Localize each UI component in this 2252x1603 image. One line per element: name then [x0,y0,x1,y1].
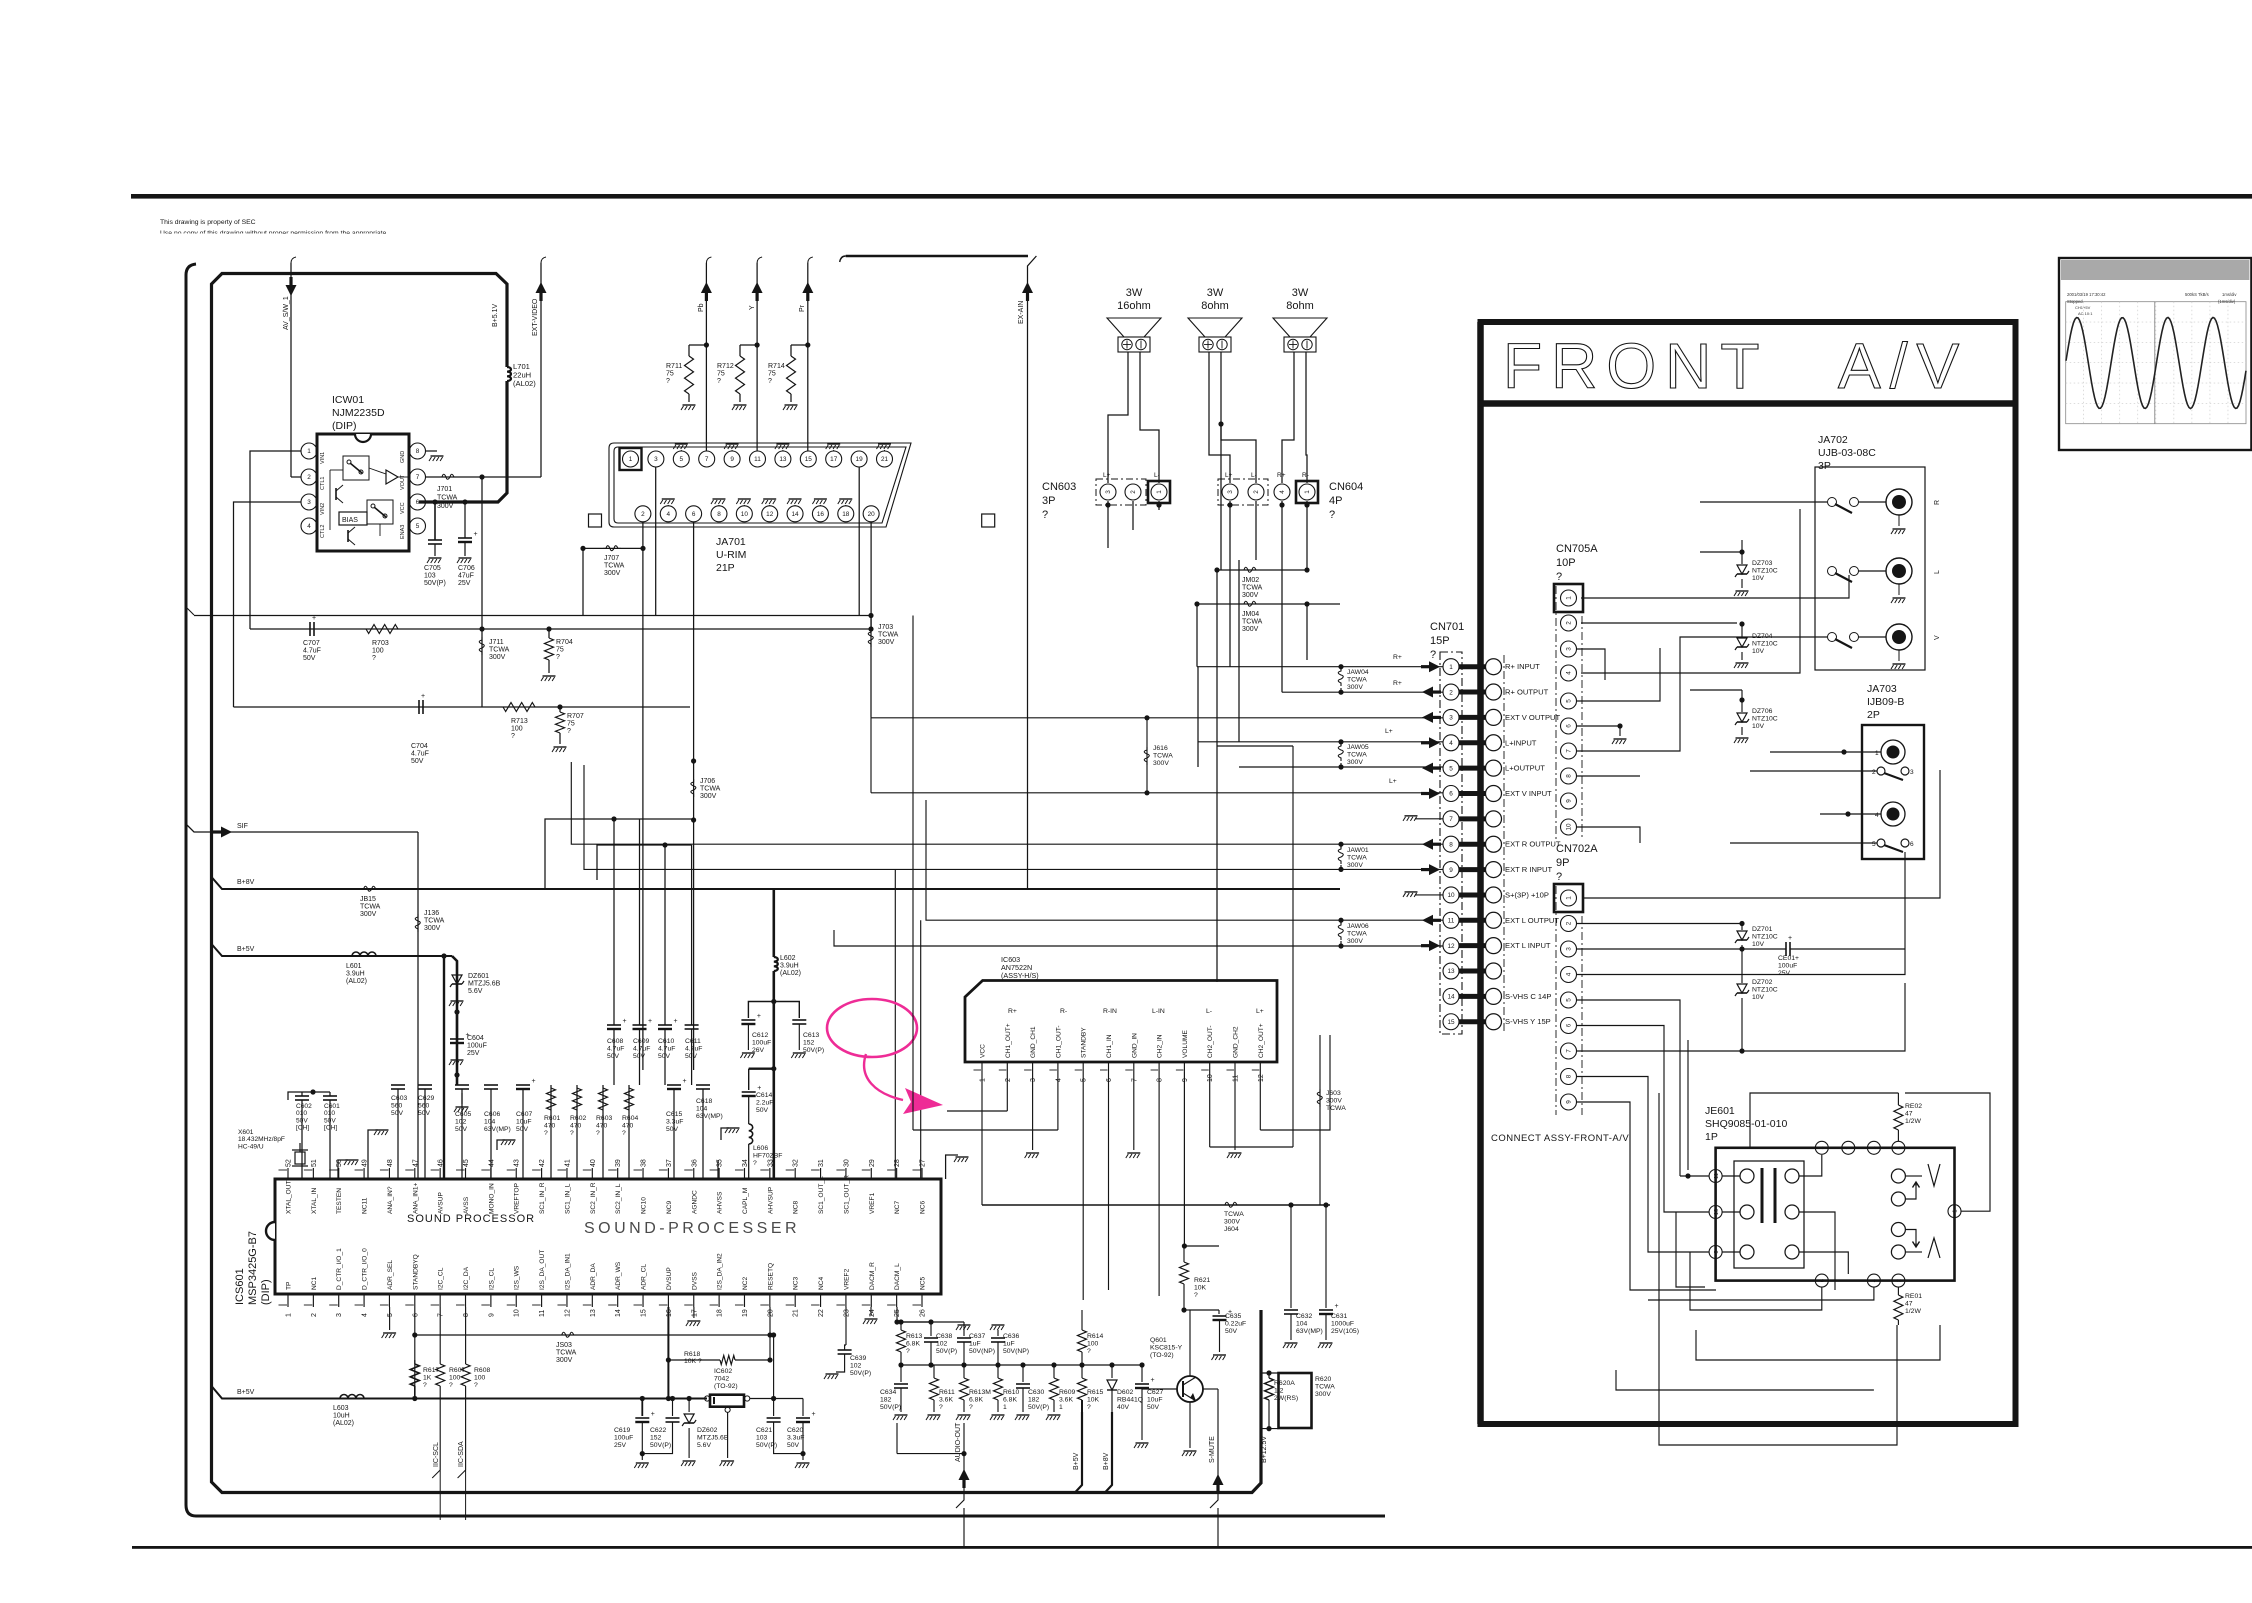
JA701 pin20 drop [870,522,872,629]
capacitor C627 [1141,1365,1143,1382]
svg-text:6: 6 [1910,841,1914,848]
IC601 pin 24 DACM_R [870,1294,872,1307]
svg-text:C705: C705 [424,565,441,572]
svg-text:100: 100 [449,1374,461,1381]
ground R712 [739,394,741,402]
inductor L701 on rail [507,367,511,381]
wire row y819 [545,819,694,889]
svg-text:3: 3 [654,456,658,463]
svg-text:103: 103 [424,573,436,580]
jumper JM04 [1241,601,1259,606]
svg-text:J604: J604 [1224,1226,1239,1233]
capacitor C613 [774,1002,800,1019]
capacitor C601 [329,1100,331,1179]
CN701 pin 7 [1443,811,1459,827]
svg-text:J603: J603 [1326,1090,1341,1097]
wire RESETQ pin20 drop [769,1307,771,1360]
resistor R703 [366,625,398,634]
wire R+ output row [1282,691,1443,693]
svg-text:CH1_OUT+: CH1_OUT+ [1005,1023,1012,1058]
svg-text:12: 12 [1447,943,1455,950]
svg-text:?: ? [449,1382,453,1389]
svg-text:9P: 9P [1556,857,1569,869]
svg-text:+: + [474,531,478,538]
svg-text:[CH]: [CH] [324,1125,337,1132]
CN701 pin 15 [1443,1014,1459,1030]
svg-text:I2S_WS: I2S_WS [514,1265,521,1290]
svg-text:50V: 50V [607,1053,620,1060]
JE601 pin 11 [1709,1170,1722,1183]
svg-text:10: 10 [741,511,749,518]
resistor R712 [739,345,741,356]
capacitor C637 [963,1322,965,1336]
svg-text:I2C_CL: I2C_CL [438,1267,445,1290]
svg-text:300V: 300V [1242,626,1259,633]
CN701 tie bar pin 1 [1459,664,1486,669]
svg-text:63V(MP): 63V(MP) [696,1113,723,1120]
headphone contact circles upper [1891,1169,1905,1183]
arrow output pin 5 [1422,763,1433,774]
JA701 pin 9 [724,451,740,467]
svg-text:C631: C631 [1331,1313,1347,1320]
ground R704 [548,660,550,673]
svg-text:33: 33 [767,1159,774,1167]
capacitor C631 [1325,1205,1327,1308]
svg-text:8: 8 [416,448,420,455]
IC601 pin 50 TESTEN [338,1168,340,1179]
svg-text:CN702A: CN702A [1556,843,1598,855]
svg-text:ANA_IN?: ANA_IN? [387,1186,394,1214]
svg-text:JM02: JM02 [1242,577,1259,584]
svg-text:13: 13 [779,456,787,463]
ground R707 [559,733,561,744]
CN705A pin 10 [1561,819,1577,835]
svg-text:21P: 21P [716,562,735,574]
ground AHVSS stub [717,1160,719,1179]
wire CN705A p10 [1577,827,1640,843]
svg-text:R+: R+ [1393,654,1402,661]
svg-text:15: 15 [641,1309,648,1317]
svg-text:[CH]: [CH] [296,1125,309,1132]
svg-text:48: 48 [387,1159,394,1167]
svg-text:ADR_WS: ADR_WS [615,1261,622,1290]
FRONT A/V box outline [1481,322,2016,1424]
svg-text:8ohm: 8ohm [1201,300,1229,312]
svg-text:15: 15 [1447,1019,1455,1026]
ground C706 [464,542,466,556]
svg-text:?: ? [474,1382,478,1389]
CN701 pin 1 [1443,659,1459,675]
JAW01 jumper [1338,842,1343,847]
inner B+5.1V rail border [419,381,507,502]
svg-text:49: 49 [362,1159,369,1167]
svg-text:Pr: Pr [799,304,806,312]
CN604 pin 2 [1248,484,1264,500]
svg-text:47: 47 [1905,1110,1913,1117]
CN702A pin 3 [1561,941,1577,957]
svg-text:NTZ10C: NTZ10C [1752,567,1778,574]
JAW04 jumper [1338,664,1343,669]
svg-text:DACM_R: DACM_R [869,1262,876,1290]
wire AV_S/W_1 [291,257,296,263]
IC602 pins [705,1396,710,1401]
svg-text:50V(NP): 50V(NP) [1003,1348,1029,1355]
svg-text:TCWA: TCWA [604,563,625,570]
ground TESTEN [338,1160,348,1179]
svg-text:75: 75 [556,647,564,654]
svg-text:5: 5 [387,1313,394,1317]
svg-text:VCC: VCC [980,1044,987,1058]
svg-text:46: 46 [438,1159,445,1167]
svg-text:3.3uF: 3.3uF [666,1118,683,1125]
svg-text:STANDBY: STANDBY [1081,1027,1088,1058]
capacitor C604 [456,1012,458,1037]
IC601 pin 47 ANA_IN1+ [414,1168,416,1179]
capacitor C706 [458,537,472,539]
svg-text:R610: R610 [1003,1389,1019,1396]
svg-text:JAW05: JAW05 [1347,744,1369,751]
JA702 body [1815,467,1925,670]
svg-text:39: 39 [615,1159,622,1167]
capacitor C630 [1022,1365,1024,1382]
svg-text:I2S_DA_OUT: I2S_DA_OUT [539,1250,546,1290]
JE601 pin 1 [1948,1205,1961,1218]
svg-text:+: + [648,1018,652,1025]
svg-text:EX-AIN: EX-AIN [1018,301,1025,324]
svg-text:50V(P): 50V(P) [850,1370,871,1377]
svg-text:J703: J703 [878,624,893,631]
ICW01 pin 3 [301,494,317,510]
JE601 pin 4 [1867,1274,1880,1287]
wire CN702A p1 [1583,770,1940,898]
rail B+5V upper [212,944,453,956]
svg-text:C632: C632 [1296,1313,1312,1320]
svg-text:10: 10 [514,1309,521,1317]
svg-text:?: ? [939,1404,943,1411]
svg-text:NC11: NC11 [362,1197,369,1214]
svg-text:10V: 10V [1752,941,1765,948]
svg-text:NC1: NC1 [311,1276,318,1290]
arrow EXT-VIDEO [536,282,547,293]
CN705A pin 2 [1561,615,1577,631]
arrow AUDIO-OUT [959,1469,970,1480]
svg-text:6: 6 [412,1313,419,1317]
svg-text:R614: R614 [1087,1333,1103,1340]
svg-text:25: 25 [894,1309,901,1317]
svg-text:Pb: Pb [698,303,705,312]
wire EX-AIN header [846,255,1028,258]
IC601 pin 26 NC5 [921,1294,923,1307]
ground R714 [790,394,792,402]
arrow S-MUTE [1213,1474,1224,1485]
svg-text:10K: 10K [1194,1284,1207,1291]
wire EXT V INPUT row [871,792,1443,794]
svg-text:DZ704: DZ704 [1752,633,1773,640]
svg-text:(1ms/div): (1ms/div) [2218,299,2236,304]
JA701 pin 8 [711,506,727,522]
svg-text:ADR_CL: ADR_CL [641,1264,648,1290]
svg-text:50V(P): 50V(P) [880,1404,901,1411]
CN701 right circle pin 5 [1486,760,1502,776]
CN701 right circle pin 4 [1486,735,1502,751]
svg-text:(AL02): (AL02) [780,970,801,977]
CN701 dash box [1440,652,1462,1034]
CN701 right circle pin 7 [1486,811,1502,827]
wire R+ input row [1197,666,1443,668]
svg-text:CTL1: CTL1 [320,477,326,490]
IC603 pin5 drop [1082,1072,1084,1300]
resistor R601 [550,1085,552,1179]
CN604 pin1 square [1296,481,1318,503]
svg-text:R620A: R620A [1274,1380,1295,1387]
svg-text:5: 5 [1081,1078,1088,1082]
svg-text:SIF: SIF [237,823,248,830]
svg-text:1: 1 [629,456,633,463]
svg-text:5.6V: 5.6V [468,988,483,995]
svg-text:IIC-SDA: IIC-SDA [458,1441,465,1467]
CN701 right circle pin 10 [1486,887,1502,903]
svg-text:L+INPUT: L+INPUT [1505,738,1537,747]
svg-text:A/V: A/V [1838,330,1968,402]
svg-text:4: 4 [362,1313,369,1317]
IC601 pin 8 I2C_DA [465,1294,467,1307]
svg-text:50V: 50V [391,1110,404,1117]
svg-text:50V(P): 50V(P) [424,580,446,587]
CN604 pin drops [1229,501,1231,667]
CN701 tie bar pin 12 [1459,943,1486,948]
svg-text:300V: 300V [604,570,621,577]
svg-text:13: 13 [590,1309,597,1317]
svg-text:AVSUP: AVSUP [438,1192,445,1214]
svg-text:MSP3425G-B7: MSP3425G-B7 [247,1231,259,1305]
svg-text:10: 10 [1207,1074,1214,1082]
magenta callout ellipse [827,999,917,1057]
svg-text:L603: L603 [333,1405,349,1412]
svg-text:10V: 10V [1752,648,1765,655]
CN705A pin 9 [1561,793,1577,809]
svg-text:NC5: NC5 [920,1276,927,1290]
R620 thick box [1279,1373,1312,1428]
svg-text:VCC: VCC [400,502,406,514]
IC601 pin 19 NC2 [743,1294,745,1307]
switch jack V [1828,633,1837,642]
arrow Y [752,282,763,293]
ground ICW01 pin8 [426,450,438,452]
svg-text:TCWA: TCWA [437,495,458,502]
svg-text:SHQ9085-01-010: SHQ9085-01-010 [1705,1118,1787,1130]
svg-text:C630: C630 [1028,1389,1044,1396]
svg-text:J707: J707 [604,555,619,562]
svg-text:9: 9 [1182,1078,1189,1082]
CN701 pin 2 [1443,684,1459,700]
IC601 pin 30 SC1_OUT_R [845,1168,847,1179]
svg-text:JAW06: JAW06 [1347,923,1369,930]
svg-text:TP: TP [286,1281,293,1290]
resistor RE01 [1897,1287,1899,1295]
wire EXT L INPUT row [834,930,1443,946]
svg-text:R604: R604 [622,1115,638,1122]
svg-text:19: 19 [742,1309,749,1317]
svg-text:?: ? [544,1130,548,1137]
svg-text:2: 2 [311,1313,318,1317]
svg-text:102: 102 [936,1340,948,1347]
capacitor C638 [930,1322,932,1336]
svg-text:4: 4 [1875,812,1879,819]
IC ICW01 body [317,434,409,551]
svg-text:50V: 50V [296,1117,308,1124]
svg-text:EXT V OUTPUT: EXT V OUTPUT [1505,713,1560,722]
svg-text:43: 43 [514,1159,521,1167]
svg-text:IIC-SCL: IIC-SCL [433,1442,440,1467]
RE02 top wire [1750,1093,1898,1148]
svg-text:102: 102 [850,1362,862,1369]
svg-text:C603: C603 [391,1095,407,1102]
svg-text:D_CTR_I/O_1: D_CTR_I/O_1 [336,1248,343,1290]
CN701 pin 5 [1443,760,1459,776]
ICW01 BIAS box [339,512,367,525]
capacitor C606 [490,1089,492,1179]
svg-text:TCWA: TCWA [1315,1383,1335,1390]
svg-text:JA701: JA701 [716,536,746,548]
svg-text:10uF: 10uF [1147,1396,1163,1403]
ICW01 internal switch 1 [343,456,369,480]
CN705A pin 1 [1561,590,1577,606]
JE601 junction pin11 [1685,1173,1690,1178]
IC601 pin 48 ANA_IN? [388,1168,390,1179]
svg-text:DZ703: DZ703 [1752,560,1773,567]
svg-text:J136: J136 [424,910,439,917]
CN604 pin 3 [1222,484,1238,500]
svg-text:GND_CH2: GND_CH2 [1233,1026,1240,1058]
wire JM02 row [1217,569,1307,571]
IC601 pin 7 I2C_CL [439,1294,441,1307]
junction C632 [1288,1202,1293,1207]
svg-text:R611: R611 [939,1389,955,1396]
svg-text:C612: C612 [752,1032,768,1039]
svg-text:L-IN: L-IN [1152,1008,1165,1015]
diode D602 [1111,1365,1113,1378]
svg-text:182: 182 [880,1396,892,1403]
svg-text:9: 9 [488,1313,495,1317]
svg-text:TCWA: TCWA [1347,854,1367,861]
svg-text:NC10: NC10 [641,1197,648,1214]
svg-text:?: ? [1556,871,1562,883]
svg-text:NTZ10C: NTZ10C [1752,933,1778,940]
svg-text:0.22uF: 0.22uF [1225,1320,1246,1327]
JA701 pin 2 [635,506,651,522]
B+5V drop thick [1075,1412,1082,1493]
svg-text:?: ? [372,655,376,662]
svg-text:I2S_DA_IN1: I2S_DA_IN1 [564,1253,571,1290]
wire CAPL_M [748,1144,750,1179]
IC601 pin 6 STANDBYQ [414,1294,416,1307]
svg-text:FRONT: FRONT [1503,330,1768,402]
svg-text:45: 45 [463,1159,470,1167]
thick L602 feed [772,890,775,957]
junction R617 B+5V [412,1396,417,1401]
svg-text:19: 19 [856,456,864,463]
svg-text:10uH: 10uH [333,1413,350,1420]
IC601 pin 36 AGNDC [693,1168,695,1179]
svg-text:16ohm: 16ohm [1117,300,1151,312]
jumper J136 on x418 [415,914,420,932]
svg-text:300V: 300V [1347,684,1363,691]
ground CN701 pin10 [1415,894,1443,896]
svg-text:B+5V: B+5V [237,946,255,953]
svg-text:63V(MP): 63V(MP) [484,1126,511,1133]
CN705A pin 4 [1561,665,1577,681]
ground above JA701 pin 16 [814,498,827,500]
svg-text:C704: C704 [411,743,428,750]
JA701 pin19 drop [858,467,860,616]
svg-text:10V: 10V [1752,575,1765,582]
wire ICW01 pin1 to border [250,451,301,629]
svg-text:CN604: CN604 [1329,481,1363,493]
svg-text:?: ? [1042,509,1048,521]
IC601 pin 37 NC9 [667,1168,669,1179]
jumper J603 [1317,1089,1322,1107]
resistor R621 [1183,1246,1185,1262]
resistor R602 [576,1085,578,1179]
resistor R614 [1081,1310,1083,1330]
resistor R713 [503,703,535,712]
svg-text:100uF: 100uF [467,1043,487,1050]
svg-text:R613M: R613M [969,1389,991,1396]
svg-text:75: 75 [768,371,776,378]
svg-text:B+5V: B+5V [1073,1452,1080,1470]
svg-text:102: 102 [455,1118,467,1125]
IC IC601 body [275,1179,941,1294]
svg-text:15P: 15P [1430,635,1450,647]
svg-text:7: 7 [438,1313,445,1317]
wire Pb from JA701 pin7 [706,257,711,263]
svg-text:17: 17 [691,1309,698,1317]
switch jack L [1828,567,1837,576]
svg-text:8: 8 [463,1313,470,1317]
svg-text:1: 1 [307,448,311,455]
svg-text:5: 5 [416,523,420,530]
svg-text:4.7uF: 4.7uF [658,1045,675,1052]
svg-text:8: 8 [717,511,721,518]
svg-text:5: 5 [1449,765,1453,772]
svg-text:470: 470 [622,1122,634,1129]
IC603 pin1 VCC drop [981,1072,983,1205]
svg-text:Q601: Q601 [1150,1337,1167,1344]
svg-text:?: ? [567,728,571,735]
svg-text:3.6K: 3.6K [1059,1396,1073,1403]
svg-text:AV_S/W_1: AV_S/W_1 [283,296,290,330]
svg-text:10: 10 [1566,823,1573,831]
wire long row y615 [194,615,871,617]
JE601 transformer circles [1740,1169,1754,1183]
thick drop x457 [452,956,457,1085]
svg-text:DACM_L: DACM_L [894,1263,901,1290]
svg-text:17: 17 [830,456,838,463]
svg-text:?: ? [717,378,721,385]
svg-text:SC1_IN_R: SC1_IN_R [539,1182,546,1214]
capacitor C615 [673,1089,675,1179]
svg-text:R615: R615 [1087,1389,1103,1396]
svg-text:AC 10:1: AC 10:1 [2078,311,2093,316]
IC601 pin 51 XTAL_IN [312,1168,314,1179]
wire CN702A p7 [1577,1050,1742,1052]
svg-text:1K: 1K [423,1374,432,1381]
rail B+8V [212,877,1341,889]
IC601 pin 1 TP [287,1294,289,1307]
svg-text:R+: R+ [1393,680,1402,687]
svg-text:2: 2 [1566,921,1573,925]
svg-text:TCWA: TCWA [700,786,721,793]
